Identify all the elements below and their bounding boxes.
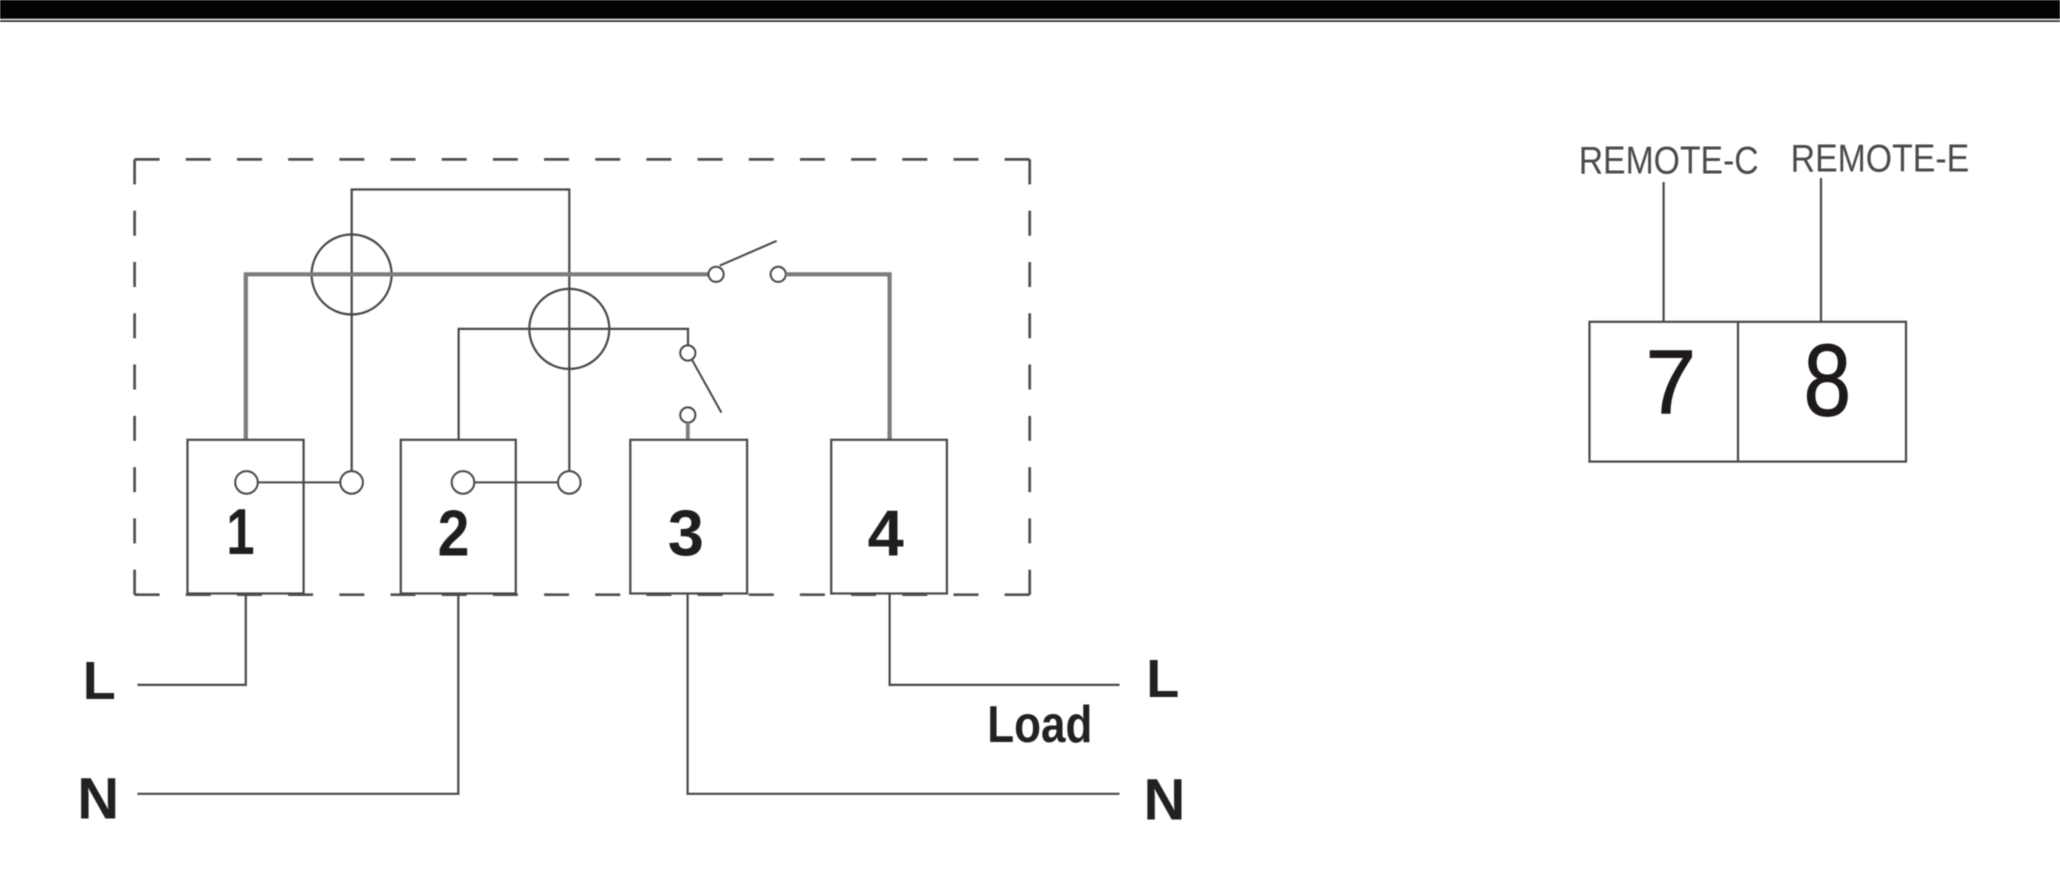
svg-text:2: 2: [438, 497, 470, 569]
wire: REMOTE-C lead: [1662, 182, 1664, 322]
svg-text:L: L: [83, 651, 116, 711]
dashed enclosure right edge: [1028, 159, 1031, 594]
switch S2 contact top: [680, 345, 695, 360]
svg-text:N: N: [77, 767, 119, 832]
wire: switch S2 to terminal 3: [686, 423, 690, 440]
dashed enclosure left edge: [133, 159, 136, 594]
switch S1 contact left: [709, 267, 724, 282]
terminal block 7/8 outline: [1590, 322, 1907, 462]
coil CT1: [312, 235, 392, 315]
terminal link B (box 2): [452, 471, 475, 494]
wire: terminal 4 to L (load): [890, 594, 1120, 685]
svg-text:REMOTE-E: REMOTE-E: [1791, 137, 1970, 180]
svg-text:1: 1: [226, 496, 254, 568]
switch S1 blade: [720, 241, 777, 266]
wire: terminal 3 to N (load): [688, 594, 1120, 794]
top banner underline: [0, 20, 2060, 22]
svg-text:L: L: [1146, 649, 1179, 709]
terminal block divider: [1737, 322, 1739, 462]
switch S2 contact bottom: [680, 407, 695, 422]
svg-text:4: 4: [868, 497, 904, 570]
svg-text:3: 3: [668, 497, 704, 570]
terminal box 3: [630, 440, 747, 594]
wire: thick L feed from terminal 1 through CT1 to switch: [246, 274, 709, 440]
switch S1 contact right: [771, 267, 786, 282]
wire: terminal 2 to N (supply): [137, 594, 458, 794]
dashed enclosure top edge: [135, 158, 1030, 161]
wire: top loop from node A down through CT1 and CT2: [352, 190, 570, 471]
terminal box 1: [188, 440, 304, 594]
dashed enclosure bottom edge: [135, 593, 1030, 596]
wire: terminal 1 to L (supply): [137, 594, 245, 685]
wire: branch from terminal 2 through CT2 to switch S2: [459, 329, 688, 440]
switch S2 blade: [692, 360, 721, 413]
terminal link A (box 1): [235, 471, 258, 494]
svg-text:REMOTE-C: REMOTE-C: [1579, 139, 1759, 182]
coil CT2: [529, 289, 609, 369]
wire: REMOTE-E lead: [1820, 178, 1822, 322]
wire: thick from switch to terminal 4: [786, 274, 890, 440]
terminal box 2: [401, 440, 516, 594]
svg-text:7: 7: [1645, 333, 1696, 434]
svg-text:Load: Load: [987, 696, 1092, 754]
svg-text:8: 8: [1803, 323, 1851, 437]
top black banner: [0, 0, 2060, 19]
terminal box 4: [831, 440, 947, 594]
svg-text:N: N: [1143, 768, 1185, 833]
